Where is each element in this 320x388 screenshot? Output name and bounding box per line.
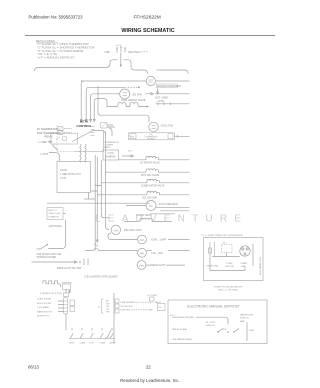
svg-text:WH-LT 2: WH-LT 2 — [48, 210, 57, 212]
compressor enclosure box — [204, 238, 264, 281]
optional box — [47, 208, 63, 220]
svg-text:AUGR: AUGR — [110, 342, 116, 345]
power cord terminal L — [116, 48, 118, 53]
svg-text:WIRING SCHEMATIC: WIRING SCHEMATIC — [121, 28, 174, 34]
wire row 4 — [93, 99, 146, 122]
wire from optional box — [48, 214, 66, 249]
svg-text:L BK: L BK — [104, 50, 110, 54]
sol water valve solenoid — [146, 169, 158, 172]
svg-text:BAR: BAR — [240, 320, 245, 323]
svg-text:FF THERMISTOR: FF THERMISTOR — [37, 127, 58, 131]
power cord terminal N — [124, 48, 126, 53]
defrost heater coil 2 — [85, 144, 86, 162]
compressor relay box — [129, 133, 175, 140]
svg-text:SWITCH: SWITCH — [240, 318, 249, 320]
svg-text:AUTO: AUTO — [107, 152, 114, 155]
note box — [57, 162, 91, 193]
svg-text:ICE _ LED: ICE _ LED — [152, 252, 164, 255]
main bus wire left hook — [35, 60, 118, 71]
wire row 3 right — [156, 93, 190, 95]
quarter water valve wire — [119, 159, 190, 161]
svg-text:START: START — [104, 146, 111, 149]
wire row 2 — [85, 87, 126, 122]
door harness vertical — [113, 293, 115, 343]
compressor motor circle — [240, 246, 250, 256]
row 2 dashed arrow — [128, 86, 139, 88]
defrost wire — [196, 317, 228, 324]
water dispenser heater circle — [146, 76, 155, 85]
arrowhead into bus — [120, 65, 122, 68]
vertical bus D — [101, 160, 109, 218]
relay block 1 — [70, 300, 75, 306]
svg-text:SHOWN CLOSED: SHOWN CLOSED — [37, 256, 57, 259]
board edge connector pins — [91, 127, 95, 136]
defrost switch 1 — [218, 329, 223, 333]
svg-text:LITE: LITE — [90, 343, 95, 345]
svg-text:COMB WATER VALVE: COMB WATER VALVE — [141, 184, 165, 187]
ice maker wires — [126, 206, 190, 211]
vertical bus B — [94, 155, 96, 251]
motor terminal S — [242, 248, 244, 250]
switch 2 — [80, 328, 83, 339]
svg-text:P.T.C. START WIRE FOR COMPRESS: P.T.C. START WIRE FOR COMPRESSOR — [202, 234, 244, 237]
row 4 arrowhead — [147, 105, 150, 107]
switch 1 — [70, 328, 73, 339]
relay box — [51, 133, 78, 144]
svg-text:2 P/N: 2 P/N — [60, 177, 66, 180]
svg-text:DAMPER: DAMPER — [106, 155, 116, 158]
board right wires — [93, 125, 115, 131]
defrost gnd stub — [246, 322, 248, 341]
dispenser lamp wire — [168, 239, 190, 241]
svg-text:* SOME PTC NO (W) GRD BTF: * SOME PTC NO (W) GRD BTF — [213, 286, 243, 288]
wire row 1 drop to control — [80, 81, 84, 122]
harness square wave — [43, 281, 61, 287]
row 3 arrow — [146, 93, 154, 95]
switch 3 — [90, 328, 93, 339]
svg-text:1 SEE NOTE 2 P4: 1 SEE NOTE 2 P4 — [60, 173, 81, 176]
svg-text:COOL FAN: COOL FAN — [161, 125, 174, 128]
svg-text:CRSH: CRSH — [100, 343, 106, 345]
FF thermistor component — [58, 127, 63, 131]
dual water valve solenoid B — [130, 102, 138, 106]
svg-text:SWITCH: SWITCH — [206, 325, 215, 327]
board outline diagonal — [72, 131, 93, 142]
freezer lamp wire — [108, 233, 138, 240]
svg-text:THE WATER TASTE: THE WATER TASTE — [172, 338, 193, 341]
svg-text:LEADVENTURE: LEADVENTURE — [95, 214, 248, 225]
svg-text:+ ICE: + ICE — [221, 329, 227, 331]
svg-text:OR: OR — [106, 309, 110, 311]
door connector pins — [115, 299, 119, 303]
svg-text:MOLD HT WH: MOLD HT WH — [37, 303, 51, 305]
compressor internal wires — [210, 244, 253, 271]
svg-text:MOTOR: MOTOR — [148, 139, 155, 141]
svg-text:22: 22 — [146, 365, 151, 370]
svg-text:COMP: COMP — [226, 263, 233, 265]
svg-text:1/4 WATER VALVE: 1/4 WATER VALVE — [140, 161, 160, 164]
refr lamp wire — [146, 264, 185, 266]
svg-text:DISP WH: DISP WH — [121, 310, 131, 312]
motor terminal C — [244, 253, 246, 255]
refr light switch arrow wire — [32, 261, 78, 263]
wire row 1 — [81, 80, 146, 82]
sol water valve wire — [106, 171, 190, 173]
bus jog — [91, 186, 101, 192]
paddle switch — [105, 330, 111, 338]
bus chevrons — [94, 243, 98, 246]
ice maker motor circle — [146, 201, 156, 211]
quarter water valve solenoid — [146, 156, 158, 159]
evap fan motor circle — [149, 122, 158, 131]
relay output switch — [53, 144, 57, 149]
svg-text:N.O.: N.O. — [128, 151, 133, 153]
svg-text:DUAL WATER VALVE: DUAL WATER VALVE — [121, 99, 146, 102]
damper arrow — [122, 155, 134, 157]
board input wires — [58, 301, 64, 312]
freezer door light switch — [37, 245, 48, 249]
svg-text:CONTROL: CONTROL — [76, 124, 91, 128]
svg-text:START: START — [241, 262, 249, 265]
L line wire — [48, 141, 52, 143]
svg-text:BK: BK — [106, 301, 109, 303]
svg-text:WH: WH — [106, 303, 110, 305]
svg-text:W - B UP: W - B UP — [206, 322, 216, 324]
comb water valve solenoid — [147, 179, 159, 182]
wire row 3 — [90, 94, 120, 122]
svg-text:P3: P3 — [159, 307, 162, 309]
svg-text:3 PRONG ICE & WTR: 3 PRONG ICE & WTR — [40, 293, 62, 295]
arrow down from dispenser label — [157, 89, 159, 95]
defrost mode box — [168, 300, 267, 344]
svg-text:LINE WH-BK: LINE WH-BK — [121, 302, 134, 304]
svg-text:FRZ LED LIGHT: FRZ LED LIGHT — [124, 229, 142, 232]
svg-text:+ WTR: + WTR — [156, 100, 164, 103]
svg-text:WTR: WTR — [70, 343, 75, 345]
svg-text:06/13: 06/13 — [28, 365, 39, 370]
dual water valve solenoid A — [118, 102, 126, 106]
header rule — [25, 35, 275, 37]
svg-text:FRZ THERMISTOR: FRZ THERMISTOR — [37, 131, 60, 135]
svg-text:"d F" = MANUAL DEFROST: "d F" = MANUAL DEFROST — [37, 55, 75, 59]
refr light switch contacts — [84, 259, 88, 266]
pin header ladder — [64, 298, 68, 315]
vertical bus A — [84, 193, 95, 200]
motor terminal M — [246, 248, 248, 250]
ice lamp — [138, 248, 147, 257]
svg-text:U COVER: U COVER — [147, 295, 157, 297]
power cord terminal GND — [120, 47, 122, 53]
svg-text:GND: GND — [148, 310, 153, 312]
svg-text:GND: GND — [249, 330, 254, 332]
dispenser switch row — [69, 338, 115, 340]
vertical bus C — [96, 157, 98, 242]
svg-text:AUTO ICEMAKER: AUTO ICEMAKER — [159, 203, 178, 206]
board outline bottom right — [75, 131, 104, 152]
switch 5 — [110, 328, 113, 339]
svg-text:Rendered by LeadVenture, Inc.: Rendered by LeadVenture, Inc. — [120, 378, 179, 383]
svg-text:MOTOR: MOTOR — [226, 266, 235, 268]
line wire from plug — [120, 53, 122, 65]
svg-text:ICE & WATER CNTRL BOARD: ICE & WATER CNTRL BOARD — [85, 275, 118, 278]
svg-text:RELAY: RELAY — [45, 134, 54, 138]
svg-text:B G W: B G W — [116, 45, 122, 47]
ice fan motor circle — [120, 89, 130, 99]
freezer lamp — [111, 225, 120, 234]
refr lamp — [137, 261, 146, 270]
svg-text:WATER DISP: WATER DISP — [240, 314, 254, 317]
relay block 2 — [70, 307, 75, 312]
comb water valve wire — [101, 182, 189, 184]
svg-text:WTR SOL VALVE: WTR SOL VALVE — [141, 174, 160, 177]
svg-text:WATER DISPENSER: WATER DISPENSER — [157, 85, 181, 88]
svg-text:L OUT: L OUT — [41, 152, 49, 156]
main bus wire right of plug — [124, 60, 148, 74]
wire row 5 with pin ticks — [156, 103, 190, 106]
board outline left dashed — [57, 125, 75, 152]
svg-text:CUBE: CUBE — [80, 343, 86, 345]
lower stub wire — [150, 213, 175, 215]
svg-text:P12 BK-WH: P12 BK-WH — [121, 306, 133, 308]
neutral dash wire — [141, 51, 148, 53]
svg-text:-OPTIONAL-: -OPTIONAL- — [48, 224, 63, 228]
svg-text:REFR LIGHT SW 75W: REFR LIGHT SW 75W — [57, 267, 82, 270]
svg-text:WH: WH — [106, 312, 110, 314]
relay box wire — [175, 135, 190, 138]
svg-text:IM WTR VLV: IM WTR VLV — [37, 316, 50, 318]
svg-text:RAKE MOTOR: RAKE MOTOR — [37, 310, 52, 313]
svg-text:COMMON: COMMON — [48, 216, 59, 218]
switch 4 — [100, 328, 103, 339]
defrost heater coil 1 — [80, 144, 81, 162]
svg-text:RUN CAPACITOR: RUN CAPACITOR — [259, 257, 262, 275]
svg-text:L LINE: L LINE — [39, 140, 47, 144]
board vertical — [65, 289, 67, 330]
svg-text:DISP _ LAMP: DISP _ LAMP — [152, 239, 167, 242]
vertical bus E — [106, 132, 110, 230]
wire hop arc — [94, 248, 99, 250]
overload protector — [209, 242, 215, 257]
sol ice disp wire — [97, 194, 189, 196]
svg-text:CM: CM — [106, 306, 109, 308]
svg-text:REFR LIGHT: REFR LIGHT — [151, 264, 166, 267]
sol ice disp solenoid — [147, 191, 159, 194]
wire bundle bracket — [102, 299, 104, 313]
svg-text:ELECTRONIC MANUAL DEFROST: ELECTRONIC MANUAL DEFROST — [187, 305, 239, 309]
L out wire — [49, 153, 60, 162]
svg-text:A: A — [98, 306, 100, 309]
auto damper box — [103, 150, 119, 160]
main bus wire to right edge — [157, 70, 189, 74]
wires off board right going down — [103, 128, 112, 136]
svg-text:NEUTRAL: NEUTRAL — [128, 50, 141, 54]
defrost switch 2 — [234, 329, 239, 333]
svg-text:COML WH-BK: COML WH-BK — [37, 299, 52, 301]
svg-text:NOTE: NOTE — [60, 169, 67, 172]
board connector hatch — [101, 123, 108, 129]
long crossover wire — [47, 202, 150, 204]
svg-text:L ICE RAKE: L ICE RAKE — [37, 306, 49, 309]
FRZ thermistor component — [58, 131, 63, 135]
svg-text:OVERLOAD: OVERLOAD — [206, 265, 219, 268]
wire shelf under ice fan — [98, 86, 149, 122]
svg-text:(VRL 1.1.1 TH OHM): (VRL 1.1.1 TH OHM) — [218, 290, 238, 292]
svg-text:DISPENSER (UI) MFD: DISPENSER (UI) MFD — [172, 317, 195, 319]
crossing wire to lamps — [85, 250, 190, 252]
svg-text:Publication No: 5995633723: Publication No: 5995633723 — [29, 15, 84, 20]
svg-text:SOL ICE DISP: SOL ICE DISP — [142, 197, 157, 199]
svg-text:1 BK-LT (BL): 1 BK-LT (BL) — [48, 213, 61, 215]
svg-text:FFHS2622M: FFHS2622M — [134, 15, 161, 21]
svg-text:I.M.: I.M. — [149, 204, 154, 208]
svg-text:RLY: RLY — [131, 136, 135, 138]
svg-text:ICE FAN: ICE FAN — [132, 93, 142, 96]
dispenser lamp — [138, 235, 147, 244]
svg-text:PRESS FLASH: PRESS FLASH — [172, 328, 187, 331]
